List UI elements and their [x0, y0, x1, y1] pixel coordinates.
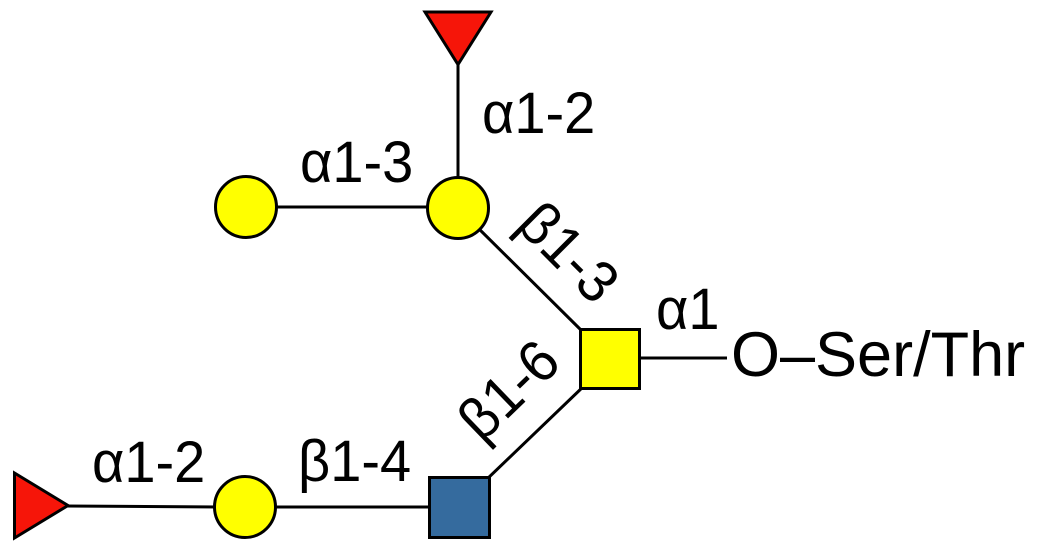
svg-text:α1-3: α1-3 — [300, 130, 413, 196]
fucose Fuc top (red triangle) — [425, 12, 491, 65]
galactose Gal bottom (yellow circle) — [215, 477, 276, 538]
wire Fuc(top) to Gal(center) — [457, 65, 460, 180]
wire GlcNAc to Gal(bottom) — [270, 506, 430, 509]
fucose Fuc left (red triangle) — [15, 473, 69, 538]
wire GalNAc to O — [640, 357, 727, 360]
wire Gal(bottom) to Fuc(left) — [65, 506, 220, 507]
svg-text:β1-4: β1-4 — [298, 429, 411, 495]
wire Gal(left) to Gal(center) — [270, 206, 435, 209]
svg-text:α1-2: α1-2 — [482, 81, 595, 147]
svg-text:O–Ser/Thr: O–Ser/Thr — [731, 320, 1025, 390]
wire GalNAc to GlcNAc beta1-6 — [485, 385, 585, 481]
wire Gal(center) to GalNAc beta1-3 — [470, 220, 585, 334]
galactose Gal left (yellow circle) — [216, 177, 277, 238]
galactose Gal center (yellow circle) — [428, 178, 489, 239]
GlcNAc (blue square) — [430, 478, 490, 538]
svg-text:α1: α1 — [656, 277, 720, 343]
svg-text:α1-2: α1-2 — [92, 430, 205, 496]
GalNAc (yellow square) — [581, 330, 640, 389]
